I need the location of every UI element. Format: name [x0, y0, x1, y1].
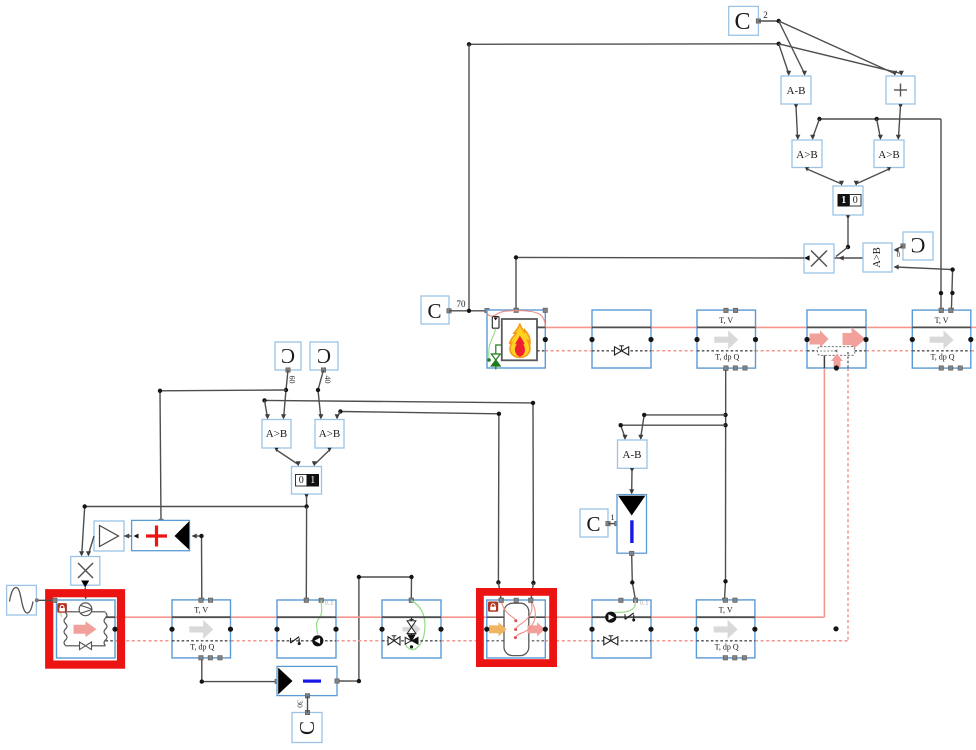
wire y44 horizontal — [469, 43, 779, 46]
svg-text:T, dp Q: T, dp Q — [715, 642, 739, 651]
node j18 — [199, 534, 203, 538]
block D3 thb sink right — [277, 666, 337, 698]
wire D3 out to valve3 — [335, 577, 414, 683]
node j27 — [409, 575, 413, 579]
svg-text:T, dp Q: T, dp Q — [715, 352, 739, 361]
pipe hot lower pink — [115, 616, 824, 618]
wire sine to HP — [35, 598, 57, 602]
svg-text:C: C — [317, 344, 331, 368]
wire C2 to junction — [758, 20, 778, 22]
block mult upper — [804, 244, 834, 273]
node corner390 — [158, 389, 162, 393]
svg-text:0..1: 0..1 — [640, 601, 649, 607]
wire C40 down — [318, 370, 324, 420]
block C1 constant — [580, 509, 615, 537]
block TV meter C — [169, 598, 233, 660]
node j19 — [723, 413, 727, 417]
wire j6 to mult-in — [836, 247, 848, 257]
wire sw01 to pump1 — [304, 507, 308, 603]
wire tvA bottom down bus — [722, 366, 728, 602]
svg-text:A>B: A>B — [796, 149, 817, 161]
wire sw01 out — [79, 496, 307, 557]
svg-text:1: 1 — [611, 513, 615, 522]
node j2 — [777, 42, 781, 46]
block plus upper — [886, 76, 915, 109]
node corner44 — [467, 42, 471, 46]
svg-text:40: 40 — [323, 376, 332, 384]
wire tv right top2 to cmp in2 — [894, 264, 954, 312]
node corner506 — [83, 504, 87, 508]
pipe hot upper pink — [545, 326, 976, 328]
svg-text:A>B: A>B — [872, 247, 883, 268]
wire j4 to AgtB2 in1 — [877, 119, 883, 140]
node j11 — [262, 398, 266, 402]
pipe riser cold dashed — [847, 368, 849, 641]
wire j2 to plus in2 — [779, 44, 904, 76]
pipe cold upper pink dashed — [545, 350, 976, 352]
node corner257 — [514, 255, 518, 259]
block sine source — [7, 585, 37, 615]
wire j1 to A-B in2 — [779, 21, 807, 76]
wire tvC bottom to D3 — [202, 658, 280, 684]
node j5 — [939, 291, 943, 295]
svg-text:70: 70 — [457, 299, 467, 309]
block consumer — [804, 310, 868, 371]
node j1 — [777, 19, 781, 23]
wire j13 to tank portR — [529, 583, 534, 603]
svg-text:A-B: A-B — [623, 449, 642, 461]
block mult lower — [71, 557, 100, 586]
svg-text:A>B: A>B — [878, 149, 899, 161]
node j7 — [950, 267, 954, 271]
wire C70 to boiler — [449, 308, 489, 312]
wire plus-out to gain-in — [124, 535, 132, 537]
node j28 — [467, 309, 471, 313]
svg-text:1: 1 — [310, 475, 315, 486]
svg-text:C: C — [295, 721, 319, 735]
wire AgtB1 to sw10 — [807, 169, 844, 186]
svg-text:A-B: A-B — [787, 85, 806, 97]
svg-text:A>B: A>B — [266, 428, 287, 440]
node j21 — [723, 579, 727, 583]
wire y412 tank sensor to AgtB4 — [340, 412, 499, 583]
block C60 mirrored — [275, 342, 301, 384]
node j3 — [817, 117, 821, 121]
block boiler — [487, 308, 548, 369]
wire y425 to AB2 in2 — [621, 425, 726, 440]
wire plus out to AgtB2 in2 — [896, 106, 901, 140]
node j15 — [497, 412, 501, 416]
block TV meter A — [694, 308, 758, 370]
node j10 — [316, 388, 320, 392]
node j23 — [619, 423, 623, 427]
block A-B 2 — [618, 440, 648, 472]
wire C30 to D3 — [296, 696, 308, 713]
block heat pump — [57, 600, 118, 658]
node j25 — [357, 679, 361, 683]
svg-text:2: 2 — [763, 10, 768, 20]
wire mult2 out to HP — [81, 581, 89, 600]
svg-text:T, V: T, V — [719, 316, 733, 325]
wire A-B1 out to AgtB1 in1 — [795, 106, 800, 140]
block gain — [94, 521, 129, 551]
wire y415 to AB2 in1 — [638, 415, 725, 440]
svg-text:C: C — [734, 9, 750, 35]
block pump2 — [589, 598, 653, 658]
svg-text:1: 1 — [841, 195, 846, 206]
wire y119 bus — [819, 119, 941, 310]
wire AgtB4 to sw01 — [312, 450, 330, 467]
wire sw10 down to j6 — [847, 217, 849, 247]
block C40 mirrored — [310, 342, 338, 384]
block C2 constant — [729, 6, 768, 35]
wire C60 tap to plus block — [159, 390, 286, 523]
svg-text:T, V: T, V — [719, 606, 733, 615]
block valve3way — [379, 598, 443, 658]
pipe riser hot — [823, 368, 825, 617]
svg-text:30: 30 — [296, 700, 305, 708]
svg-text:C: C — [911, 233, 926, 258]
node j12 — [531, 401, 535, 405]
node j22 — [642, 413, 646, 417]
svg-text:C: C — [586, 512, 600, 536]
wire gain out to mult — [86, 536, 94, 557]
wire AgtB2 to sw10 — [854, 169, 889, 186]
block cmp AgtB rotated — [863, 243, 892, 272]
wire tvB top1 square — [939, 308, 943, 312]
svg-text:T, V: T, V — [935, 316, 949, 325]
block TV meter D — [694, 598, 758, 660]
svg-text:0..1: 0..1 — [325, 601, 334, 607]
block plus add triangle — [132, 520, 190, 550]
node j24 — [630, 580, 634, 584]
wire AB2 to D2 — [629, 470, 634, 495]
svg-text:T, V: T, V — [194, 606, 208, 615]
wire j14 to AgtB4 in2 — [335, 412, 341, 420]
svg-text:0: 0 — [896, 250, 900, 259]
block pump1 mirrored — [274, 598, 338, 658]
wire j2 to A-B in1 — [779, 44, 792, 76]
svg-text:A>B: A>B — [319, 428, 340, 440]
wire tvC meas to plus — [192, 533, 204, 602]
block TV meter B — [910, 308, 974, 370]
svg-text:C: C — [427, 299, 441, 323]
wire mult out long to boiler — [514, 257, 804, 312]
node j17 — [304, 504, 308, 508]
node j26 — [357, 575, 361, 579]
block pipe valve — [589, 310, 653, 368]
wire AgtB3 to sw01 — [277, 450, 301, 467]
svg-text:0: 0 — [299, 475, 304, 486]
block AgtB 2 — [874, 140, 904, 172]
block switch 1-0 — [833, 186, 863, 220]
svg-text:T, dp Q: T, dp Q — [190, 642, 214, 651]
block A-B 1 — [781, 76, 811, 109]
wire cmp out to mult — [834, 255, 869, 260]
wire j3 to AgtB1 in2 — [810, 119, 819, 140]
wire vertical x469 to C70 junction — [468, 44, 470, 311]
wire j1 to plus in1 — [779, 21, 898, 76]
block C70 constant — [421, 296, 466, 324]
node j16 — [496, 580, 500, 584]
node j13 — [531, 581, 535, 585]
wire y400 tank sensor to AgtB3 — [265, 400, 534, 583]
node j8 — [950, 291, 954, 295]
node corner681 — [200, 679, 204, 683]
svg-text:C: C — [281, 344, 295, 368]
svg-text:0: 0 — [853, 195, 858, 206]
block switch 0-1 — [292, 467, 322, 499]
svg-text:60: 60 — [288, 376, 297, 384]
wire C0 to cmp in1 — [894, 246, 904, 259]
wire j16 to tank portL — [498, 582, 503, 602]
highlight frame tank — [480, 592, 553, 663]
node j4 — [875, 117, 879, 121]
block D2 thb sink down — [617, 495, 647, 556]
wire C60 down — [281, 370, 288, 420]
wire D2 to pump2 — [632, 555, 638, 602]
node thb floating — [833, 626, 838, 631]
block C0 mirrored — [901, 232, 933, 260]
block AgtB 3 — [262, 420, 291, 453]
node j6 — [846, 245, 850, 249]
node j20 — [723, 423, 727, 427]
svg-text:T, dp Q: T, dp Q — [931, 352, 955, 361]
pipe cold lower pink dashed — [115, 640, 848, 642]
block C30 rotated — [292, 710, 322, 742]
block AgtB 4 — [315, 420, 344, 453]
highlight frame heat pump — [49, 593, 121, 664]
wire j11 to AgtB3 in1 — [265, 400, 271, 419]
block storage tank — [484, 598, 548, 658]
node j9 — [284, 388, 288, 392]
block AgtB 1 — [792, 140, 822, 172]
node j14 — [338, 409, 342, 413]
wire C1 to D2 — [608, 521, 619, 525]
